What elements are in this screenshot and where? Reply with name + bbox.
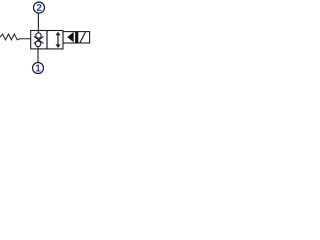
port 2 circle [34,2,45,13]
wire from valve body to port 1 [37,49,39,63]
svg-text:1: 1 [35,64,41,75]
svg-text:2: 2 [36,3,42,14]
solenoid box [63,32,90,43]
solenoid armature triangle [67,32,73,42]
ball-seat symbol: crossing seat line 1 [34,36,43,43]
background [0,0,92,76]
flow arrow: lower head [56,44,61,48]
valve position square 1 (left, ball-seat closed position) [31,31,47,49]
ball-seat symbol: lower ball [35,41,40,46]
double-headed flow arrow in square 2: shaft [57,34,59,45]
flow arrow: upper head [56,32,61,36]
proportional slash [80,32,85,42]
ball-seat symbol: lower stub wire [37,46,39,49]
valve position square 2 (right, open flow position) [47,31,63,49]
solenoid pole bar [75,32,78,43]
wire from port 2 to valve body [37,13,39,31]
return spring (left) [0,34,31,40]
ball-seat symbol: upper ball [36,33,41,38]
port 1 circle [33,63,44,74]
ball-seat symbol: crossing seat line 2 [34,36,43,43]
ball-seat symbol: upper stub wire [37,31,39,34]
